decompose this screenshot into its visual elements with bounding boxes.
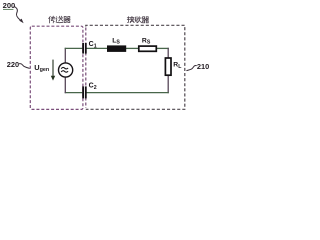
svg-text:210: 210: [197, 62, 209, 71]
leader squiggle 210: [186, 66, 196, 71]
receiver box left edge (purple tint): [85, 28, 87, 109]
wire: corner down to RL top: [167, 48, 169, 58]
leader squiggle 220: [19, 64, 30, 69]
svg-text:1: 1: [94, 44, 97, 50]
receiver box (dashed dark, top/right/bottom): [86, 25, 185, 109]
C1 label: [89, 41, 97, 50]
capacitor C2 plates: [82, 86, 87, 98]
svg-text:gen: gen: [40, 67, 50, 73]
wire: top to C1: [65, 47, 83, 49]
leader arrow from 200: [14, 6, 24, 23]
svg-text:S: S: [116, 39, 120, 45]
Rs label: [142, 37, 151, 45]
source U1 circle: [59, 63, 73, 77]
transmitter box (dashed purple): [30, 26, 83, 109]
Ugen label: [34, 63, 49, 73]
wire: RL bottom vertical: [167, 76, 169, 93]
wire: Rs to corner: [157, 47, 169, 49]
wire: Ls to Rs: [126, 47, 139, 49]
RL label: [173, 61, 182, 70]
Ls label: [112, 37, 120, 45]
器: [64, 17, 70, 23]
label 200: [3, 1, 16, 10]
wire: source bottom vertical: [64, 77, 66, 93]
收: [135, 17, 141, 23]
resistor RL body: [165, 58, 171, 75]
label transmitter 传送器: [49, 16, 71, 23]
接: [127, 16, 134, 22]
器: [142, 17, 148, 23]
送: [56, 16, 63, 22]
wire: source top vertical: [64, 48, 66, 63]
label receiver 接收器: [127, 16, 148, 22]
svg-text:S: S: [147, 39, 151, 45]
inductor Ls body: [107, 45, 126, 52]
source wave symbol: [61, 67, 68, 72]
capacitor C1 plates: [82, 43, 87, 54]
wire: bottom run to C2: [87, 92, 169, 94]
svg-text:2: 2: [94, 85, 97, 91]
C2 label: [89, 83, 97, 92]
wire: C1 to Ls: [87, 47, 108, 49]
wire: C2 to source bottom: [65, 92, 83, 94]
传: [49, 16, 56, 23]
current direction arrow: [51, 60, 55, 81]
svg-text:200: 200: [3, 1, 16, 10]
resistor Rs body: [139, 46, 157, 51]
svg-text:220: 220: [7, 60, 19, 69]
